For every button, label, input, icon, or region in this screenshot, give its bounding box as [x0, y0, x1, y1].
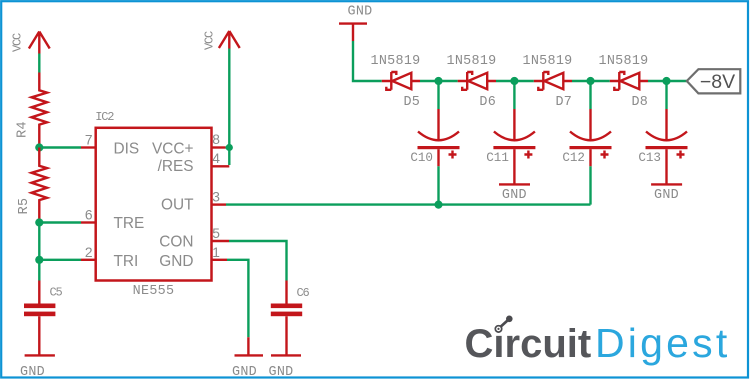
- svg-text:GND: GND: [654, 188, 679, 203]
- pin 4 stub: [212, 165, 230, 167]
- capacitor C12 (polarized): [562, 109, 611, 166]
- wire node B down to C11: [513, 81, 515, 109]
- svg-text:D7: D7: [555, 95, 572, 110]
- svg-text:OUT: OUT: [161, 197, 194, 214]
- svg-text:Digest: Digest: [595, 320, 730, 366]
- wire pin 5 to C6: [229, 241, 287, 281]
- wire node A down to C10: [437, 81, 439, 109]
- svg-text:CON: CON: [159, 233, 193, 250]
- svg-text:3: 3: [212, 189, 220, 204]
- svg-text:C11: C11: [486, 151, 509, 165]
- pin 6 stub: [81, 221, 96, 223]
- diode D5 1N5819: [370, 54, 420, 110]
- wire node to pin 6: [39, 221, 81, 223]
- svg-text:R4: R4: [16, 121, 31, 138]
- capacitor C10 (polarized): [410, 109, 459, 166]
- svg-text:Circuit: Circuit: [465, 322, 592, 366]
- resistor R4: [16, 73, 47, 148]
- capacitor C6: [271, 281, 310, 356]
- svg-text:1N5819: 1N5819: [446, 54, 496, 69]
- wire D5 to node: [420, 80, 439, 82]
- ground (pin 1): [232, 337, 263, 380]
- svg-text:7: 7: [85, 133, 93, 148]
- svg-text:NE555: NE555: [133, 284, 175, 299]
- wire C10 down to OUT bus: [437, 166, 439, 204]
- wire node to -8V flag: [667, 80, 688, 82]
- pin 3 stub: [212, 203, 227, 205]
- svg-text:5: 5: [212, 226, 220, 241]
- wire top GND to D5: [353, 41, 382, 81]
- svg-text:VCC+: VCC+: [152, 140, 193, 157]
- svg-text:GND: GND: [232, 365, 257, 380]
- ground under C6: [268, 355, 301, 380]
- wire VCC to R4: [38, 54, 40, 73]
- pin 1 stub: [212, 259, 228, 261]
- svg-text:−8V: −8V: [700, 71, 735, 93]
- wire node down to C5: [38, 260, 40, 281]
- svg-text:/RES: /RES: [158, 158, 194, 175]
- wire pin8 to node: [226, 146, 230, 148]
- node B (D6/D7/C11): [510, 77, 518, 85]
- pin 8 stub: [212, 146, 226, 148]
- wire node C down to C12: [589, 81, 591, 109]
- svg-text:C5: C5: [50, 286, 63, 300]
- wire node to pin 2: [39, 259, 81, 261]
- svg-text:GND: GND: [159, 253, 193, 270]
- CircuitDigest logo: [465, 316, 731, 367]
- svg-text:D8: D8: [631, 95, 648, 110]
- svg-text:R5: R5: [17, 198, 32, 215]
- node junction OUT/C10: [434, 201, 442, 209]
- capacitor C13 (polarized): [638, 109, 687, 184]
- ground (top, charge pump input): [339, 5, 373, 42]
- node junction pin8/pin4/VCC: [226, 144, 233, 151]
- svg-text:VCC: VCC: [203, 31, 217, 50]
- svg-text:1N5819: 1N5819: [370, 54, 420, 69]
- diode D8 1N5819: [598, 54, 648, 110]
- node D (D8/C13/output): [662, 77, 670, 85]
- op-amp timer IC2 NE555: [81, 110, 229, 299]
- ground under C13: [651, 184, 682, 202]
- svg-text:GND: GND: [20, 365, 45, 380]
- pin 2 stub: [81, 259, 96, 261]
- svg-text:D5: D5: [403, 95, 420, 110]
- node junction R5/pin6: [35, 218, 43, 226]
- svg-text:GND: GND: [347, 5, 372, 20]
- svg-text:D6: D6: [479, 95, 496, 110]
- node junction pin2: [35, 256, 43, 264]
- wire OUT bus from pin 3: [226, 203, 591, 205]
- resistor R5: [17, 148, 47, 223]
- capacitor C11 (polarized): [486, 109, 535, 184]
- wire node down to pin 4: [228, 148, 230, 166]
- node junction R4/R5/pin7: [35, 143, 43, 151]
- svg-text:1: 1: [212, 245, 220, 260]
- ground under C5: [20, 355, 55, 380]
- wire node to pin 7: [39, 146, 81, 148]
- wire D8 to node: [648, 80, 667, 82]
- node A (D5/D6/C10): [434, 77, 442, 85]
- svg-text:2: 2: [85, 245, 93, 260]
- supply flag -8V: [687, 69, 741, 93]
- wire node to D8: [591, 80, 610, 82]
- svg-text:TRE: TRE: [114, 215, 145, 232]
- svg-text:8: 8: [212, 132, 220, 147]
- node C (D7/D8/C12): [586, 77, 594, 85]
- wire node to D6: [439, 80, 458, 82]
- svg-text:TRI: TRI: [114, 253, 139, 270]
- wire node to D7: [514, 80, 533, 82]
- pin 5 stub: [212, 240, 230, 242]
- power symbol VCC (left): [11, 32, 50, 54]
- svg-text:1N5819: 1N5819: [598, 54, 648, 69]
- wire VCC down to pin8 node: [228, 49, 230, 148]
- svg-text:4: 4: [212, 151, 220, 166]
- wire C12 down to OUT bus: [589, 166, 591, 204]
- ground under C11: [499, 184, 530, 202]
- svg-text:GND: GND: [502, 188, 527, 203]
- svg-text:IC2: IC2: [95, 110, 114, 124]
- wire D6 to node: [496, 80, 514, 82]
- svg-text:VCC: VCC: [11, 33, 25, 52]
- power symbol VCC (above pin 8): [203, 31, 240, 50]
- svg-text:1N5819: 1N5819: [522, 54, 572, 69]
- svg-text:C10: C10: [410, 151, 433, 165]
- svg-text:C6: C6: [297, 286, 310, 300]
- diode D7 1N5819: [522, 54, 572, 110]
- wire pin 1 to ground: [227, 260, 248, 337]
- capacitor C5: [24, 281, 63, 356]
- svg-text:6: 6: [85, 208, 93, 223]
- svg-text:DIS: DIS: [114, 140, 140, 157]
- svg-text:C12: C12: [562, 151, 585, 165]
- diode D6 1N5819: [446, 54, 496, 110]
- svg-text:GND: GND: [268, 365, 293, 380]
- wire D7 to node: [572, 80, 591, 82]
- svg-text:C13: C13: [638, 151, 661, 165]
- pin 7 stub: [81, 146, 96, 148]
- wire node D down to C13: [665, 81, 667, 109]
- wire node to node pin2: [38, 223, 40, 260]
